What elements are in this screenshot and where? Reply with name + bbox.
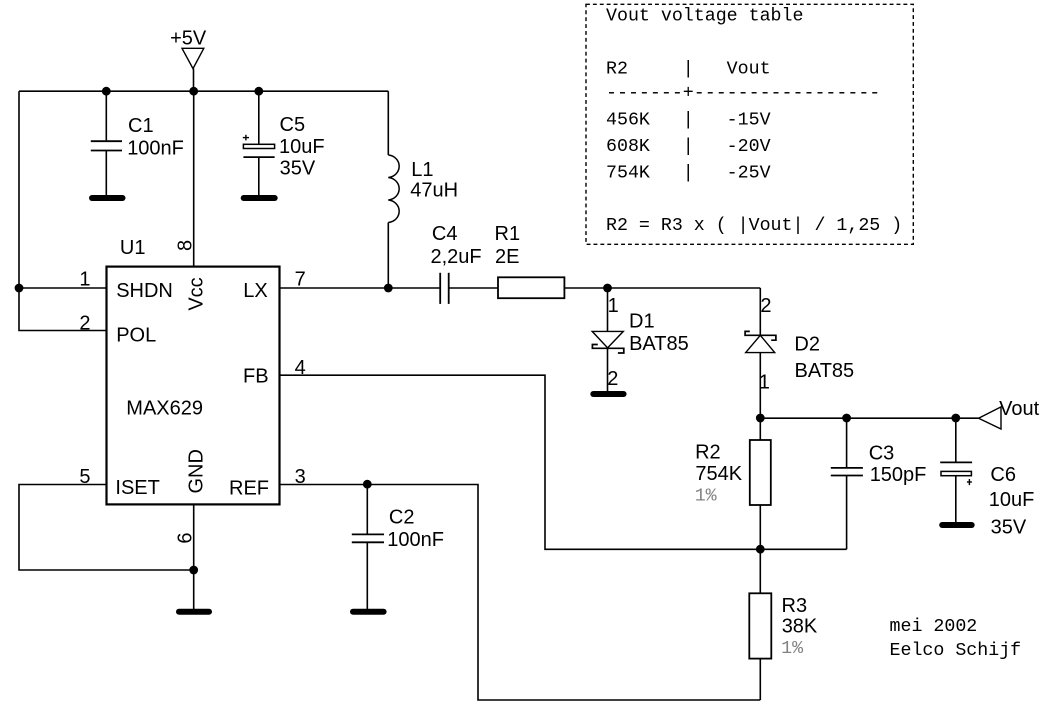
ground (C6) <box>939 522 975 528</box>
svg-text:10uF: 10uF <box>989 489 1035 511</box>
resistor R2 754K 1% <box>695 418 771 549</box>
svg-text:REF: REF <box>229 477 269 499</box>
wire Vcc pin 8 <box>193 91 195 266</box>
power +5V symbol <box>170 27 207 68</box>
junction C6/Vout line <box>951 414 960 423</box>
wire GND pin 6 to ground <box>193 504 195 609</box>
svg-text:R1: R1 <box>495 223 521 245</box>
ground (D1) <box>590 391 626 397</box>
svg-text:35V: 35V <box>991 516 1027 538</box>
junction SHDN/left rail <box>15 284 24 293</box>
svg-text:2: 2 <box>607 368 618 390</box>
svg-text:100nF: 100nF <box>387 529 444 551</box>
ground (U1 GND) <box>176 609 212 615</box>
svg-text:U1: U1 <box>120 237 146 259</box>
svg-text:BAT85: BAT85 <box>629 333 689 355</box>
svg-text:1%: 1% <box>781 639 803 659</box>
inductor L1 <box>388 91 458 288</box>
resistor R1 <box>495 223 565 298</box>
svg-text:35V: 35V <box>280 158 316 180</box>
svg-text:10uF: 10uF <box>279 136 325 158</box>
wire top rail <box>19 90 388 92</box>
capacitor C5 (polarized) <box>243 91 325 195</box>
svg-text:1%: 1% <box>695 486 717 506</box>
svg-text:POL: POL <box>116 324 156 346</box>
svg-text:+5V: +5V <box>170 27 207 49</box>
svg-text:FB: FB <box>243 366 269 388</box>
table: Vout voltage table (dashed box) <box>586 4 913 244</box>
svg-text:1: 1 <box>608 295 619 317</box>
svg-text:2: 2 <box>79 312 90 334</box>
svg-text:754K | -25V: 754K | -25V <box>606 163 771 183</box>
capacitor C3 <box>831 418 927 549</box>
svg-text:Vout: Vout <box>999 398 1039 420</box>
capacitor C2 <box>352 485 444 610</box>
svg-text:C2: C2 <box>389 507 415 529</box>
svg-text:-------+-----------------: -------+----------------- <box>606 84 880 104</box>
svg-text:MAX629: MAX629 <box>126 398 203 420</box>
junction D2/R2 <box>756 414 765 423</box>
diode D2 BAT85 (Schottky, cathode up) <box>745 288 854 418</box>
IC U1 MAX629 <box>107 237 280 504</box>
text credit: mei 2002 / Eelco Schijf <box>890 617 1022 661</box>
svg-text:150pF: 150pF <box>870 464 927 486</box>
wire REF pin 3 <box>280 485 760 701</box>
ground (C5) <box>241 195 278 201</box>
svg-text:R3: R3 <box>782 595 808 617</box>
svg-text:608K | -20V: 608K | -20V <box>606 137 771 157</box>
svg-text:Eelco Schijf: Eelco Schijf <box>890 641 1022 661</box>
svg-text:47uH: 47uH <box>410 180 458 202</box>
svg-text:100nF: 100nF <box>127 138 184 160</box>
wire SHDN pin 1 <box>19 287 107 289</box>
svg-text:ISET: ISET <box>115 477 159 499</box>
svg-text:mei 2002: mei 2002 <box>890 617 978 637</box>
wire R1 to D2 corner <box>565 287 760 289</box>
ground (C2) <box>350 609 387 615</box>
svg-text:C1: C1 <box>128 115 154 137</box>
svg-text:2E: 2E <box>495 246 519 268</box>
svg-text:754K: 754K <box>695 463 742 485</box>
junction C3/Vout line <box>842 414 851 423</box>
ground (C1) <box>89 195 126 201</box>
svg-text:2,2uF: 2,2uF <box>431 246 482 268</box>
wire ISET pin 5 loop to GND <box>19 485 194 571</box>
svg-text:2: 2 <box>760 295 771 317</box>
wire Vout line <box>760 417 978 419</box>
svg-text:C4: C4 <box>432 223 458 245</box>
wire left rail vertical <box>19 91 107 330</box>
capacitor C4 <box>431 223 482 304</box>
svg-text:C5: C5 <box>280 114 306 136</box>
svg-text:D1: D1 <box>629 311 655 333</box>
wire C4 to R1 <box>449 287 498 289</box>
svg-text:R2: R2 <box>695 442 721 464</box>
svg-text:456K | -15V: 456K | -15V <box>606 111 771 131</box>
junction D1/LX line <box>603 284 612 293</box>
svg-text:BAT85: BAT85 <box>795 360 855 382</box>
capacitor C1 <box>91 91 184 195</box>
junction LX/L1 <box>384 284 393 293</box>
svg-text:GND: GND <box>185 449 207 493</box>
junction C5/top rail <box>254 87 263 96</box>
node Vout (output arrow) <box>979 398 1040 429</box>
svg-text:LX: LX <box>243 280 267 302</box>
junction C2/REF <box>363 480 372 489</box>
svg-text:SHDN: SHDN <box>116 280 173 302</box>
wire FB pin 4 <box>280 375 847 549</box>
junction Vcc/top rail <box>189 87 198 96</box>
capacitor C6 (polarized) <box>940 418 1034 538</box>
junction ISET/GND <box>189 566 198 575</box>
svg-text:L1: L1 <box>411 159 433 181</box>
svg-text:C3: C3 <box>869 442 895 464</box>
svg-text:R2 = R3 x ( |Vout| / 1,25 ): R2 = R3 x ( |Vout| / 1,25 ) <box>606 216 902 236</box>
wire +5V to top rail <box>193 69 195 92</box>
junction C1/top rail <box>102 87 111 96</box>
diode D1 BAT85 (Schottky, cathode down) <box>592 288 689 392</box>
resistor R3 38K 1% <box>749 549 818 700</box>
junction R2/R3/FB <box>756 545 765 554</box>
svg-text:Vcc: Vcc <box>186 277 208 310</box>
svg-text:Vout voltage table: Vout voltage table <box>606 7 803 27</box>
svg-text:1: 1 <box>759 372 770 394</box>
svg-text:R2 | Vout: R2 | Vout <box>606 60 771 80</box>
svg-text:38K: 38K <box>782 615 818 637</box>
wire LX pin 7 to C4 <box>279 287 440 289</box>
svg-text:D2: D2 <box>794 334 820 356</box>
svg-text:C6: C6 <box>990 464 1016 486</box>
